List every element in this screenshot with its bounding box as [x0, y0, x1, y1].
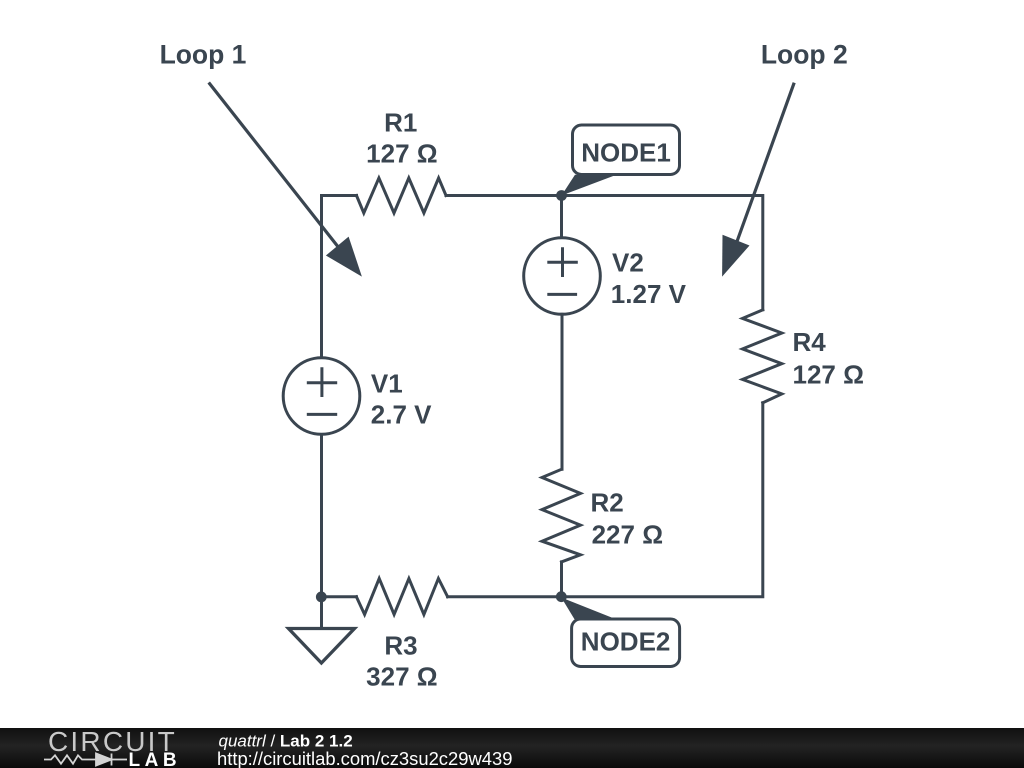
- Loop 2 arrow line: [735, 83, 794, 247]
- svg-text:Loop 2: Loop 2: [761, 39, 848, 69]
- svg-text:R4: R4: [793, 327, 827, 357]
- voltage source V2: [524, 238, 601, 315]
- svg-text:LAB: LAB: [129, 750, 182, 768]
- wire: R3 to NODE2 junction: [448, 595, 562, 598]
- ground: [289, 629, 355, 664]
- svg-text:R3: R3: [384, 630, 417, 660]
- wire: ground junction right to R3: [321, 595, 356, 598]
- node NODE2 callout tail: [561, 598, 616, 620]
- wire: R4 down to bottom-right corner and left to NODE2: [561, 403, 763, 597]
- svg-text:NODE2: NODE2: [581, 626, 671, 656]
- CircuitLab logo resistor-diode glyph: [44, 754, 127, 766]
- svg-text:127 Ω: 127 Ω: [793, 359, 864, 389]
- Loop 2 arrowhead: [722, 235, 749, 277]
- svg-text:R2: R2: [591, 487, 624, 517]
- resistor R1: [357, 178, 447, 213]
- svg-text:http://circuitlab.com/cz3su2c2: http://circuitlab.com/cz3su2c29w439: [217, 748, 512, 768]
- node NODE1 junction dot: [556, 190, 567, 201]
- node NODE1 callout tail: [562, 175, 617, 196]
- node: ground junction dot: [316, 592, 327, 603]
- V2 plus sign: [549, 249, 577, 276]
- svg-text:127 Ω: 127 Ω: [366, 138, 437, 168]
- V1 plus sign: [308, 369, 335, 396]
- svg-text:2.7 V: 2.7 V: [371, 399, 432, 429]
- svg-text:227 Ω: 227 Ω: [592, 519, 663, 549]
- wire: V1 down to ground: [320, 436, 323, 628]
- svg-text:R1: R1: [384, 108, 417, 138]
- svg-text:Loop 1: Loop 1: [160, 39, 247, 69]
- svg-text:V2: V2: [612, 248, 644, 278]
- voltage source V1: [283, 358, 360, 435]
- Loop 1 arrowhead: [326, 237, 362, 277]
- resistor R2: [542, 469, 581, 562]
- wire: R1 to top-right corner and down to R4: [446, 196, 763, 310]
- wire: NODE1 junction down to V2: [560, 196, 563, 237]
- V1 minus sign: [308, 413, 335, 416]
- svg-text:1.27 V: 1.27 V: [611, 279, 687, 309]
- svg-text:327 Ω: 327 Ω: [366, 661, 437, 691]
- wire: R2 to NODE2 junction: [560, 562, 563, 597]
- svg-text:NODE1: NODE1: [581, 137, 671, 167]
- svg-text:V1: V1: [371, 368, 403, 398]
- wire: left vertical + top-left corner to R1: [322, 196, 357, 357]
- resistor R4: [743, 310, 782, 403]
- V2 minus sign: [549, 293, 576, 296]
- wire: V2 to R2: [561, 314, 564, 469]
- resistor R3: [356, 579, 447, 615]
- node NODE1 callout box: [573, 125, 680, 175]
- node NODE2 callout box: [572, 619, 680, 667]
- Loop 1 arrow line: [209, 83, 339, 249]
- node NODE2 junction dot: [556, 591, 567, 602]
